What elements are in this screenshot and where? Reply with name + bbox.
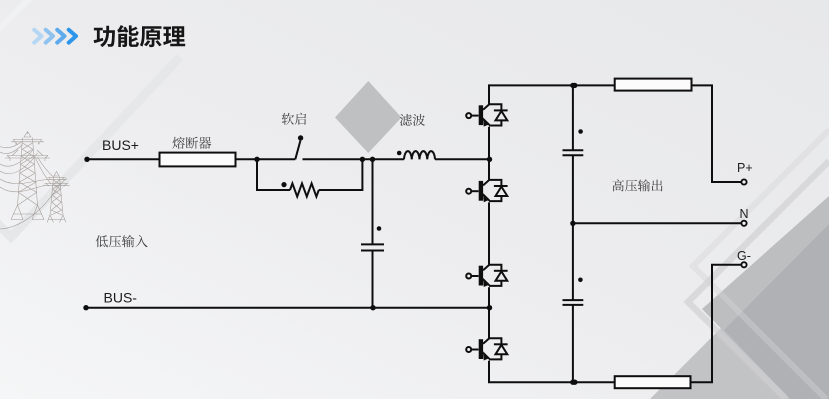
svg-text:BUS-: BUS- xyxy=(104,289,138,305)
node B junction dot xyxy=(360,157,365,162)
node BUS- terminal dot xyxy=(83,305,88,310)
capacitor C1 input filter xyxy=(361,244,384,250)
node D junction dot on bridge bus xyxy=(487,157,492,162)
node dot before inductor xyxy=(397,151,402,156)
svg-text:N: N xyxy=(740,207,749,221)
node dot beside capacitor C3 xyxy=(578,278,583,283)
wire resistor to node B xyxy=(319,159,363,190)
wire inductor to bridge xyxy=(435,158,489,160)
wire DC-link vertical xyxy=(572,85,574,382)
wire bottom rail xyxy=(488,381,615,383)
wire filter-cap branch upper xyxy=(372,159,374,244)
capacitor C3 DC-link lower xyxy=(563,300,584,305)
title chevrons xyxy=(34,30,76,43)
transistor Q2 (IGBT with freewheel diode) xyxy=(466,180,507,202)
terminal P+ ring xyxy=(741,179,746,184)
node dot bottom rail xyxy=(572,380,577,385)
node dot C1 branch at BUS- xyxy=(370,305,375,310)
wire BUS- rail xyxy=(86,307,489,309)
node dot top rail xyxy=(572,83,577,88)
wire switch to node B xyxy=(303,158,405,160)
node BUS+ terminal dot xyxy=(84,157,89,162)
resistor R2 top rail xyxy=(615,79,692,91)
wire bottom rail to G- corner xyxy=(691,265,742,382)
wire top rail xyxy=(488,84,615,86)
wire fuse to node A xyxy=(236,158,296,160)
label 软启 xyxy=(282,113,306,125)
wire filter-cap branch lower xyxy=(372,251,374,308)
wire top rail to P+ corner xyxy=(692,85,742,182)
transistor Q4 (IGBT with freewheel diode) xyxy=(466,338,507,360)
resistor R3 bottom rail xyxy=(615,376,691,388)
svg-text:BUS+: BUS+ xyxy=(102,137,139,153)
capacitor C2 DC-link upper xyxy=(563,150,584,155)
node dot on resistor branch xyxy=(281,182,286,187)
svg-text:G-: G- xyxy=(737,249,751,263)
node dot DC-link top xyxy=(570,83,575,88)
label 熔断器 xyxy=(172,137,211,149)
wire soft-start branch down xyxy=(257,159,290,190)
decorative transmission towers sketch xyxy=(0,132,70,230)
svg-text:P+: P+ xyxy=(737,161,753,175)
node E junction dot BUS- at bridge xyxy=(487,305,492,310)
node dot beside capacitor C1 xyxy=(377,226,382,231)
transistor Q3 (IGBT with freewheel diode) xyxy=(466,265,507,287)
node N junction dot xyxy=(570,221,575,226)
transistor Q1 (IGBT with freewheel diode) xyxy=(466,104,507,126)
label 滤波 xyxy=(400,114,425,126)
wire BUS+ to fuse xyxy=(87,158,160,160)
terminal G- ring xyxy=(741,262,746,267)
label 低压输入 xyxy=(96,235,148,247)
resistor R1 soft-start bypass xyxy=(290,183,319,196)
node A junction dot xyxy=(254,157,259,162)
wire bridge bus vertical segments xyxy=(488,85,490,382)
fuse F1 xyxy=(160,153,236,167)
node dot beside capacitor C2 xyxy=(578,129,583,134)
inductor L1 filter choke xyxy=(404,151,435,159)
title 功能原理 xyxy=(94,25,186,47)
switch S1 soft-start contact xyxy=(295,141,300,160)
terminal N ring xyxy=(741,221,746,226)
wire N output xyxy=(573,222,741,224)
node C junction dot xyxy=(370,157,375,162)
label 高压输出 xyxy=(612,179,662,191)
node dot DC-link bottom xyxy=(570,380,575,385)
